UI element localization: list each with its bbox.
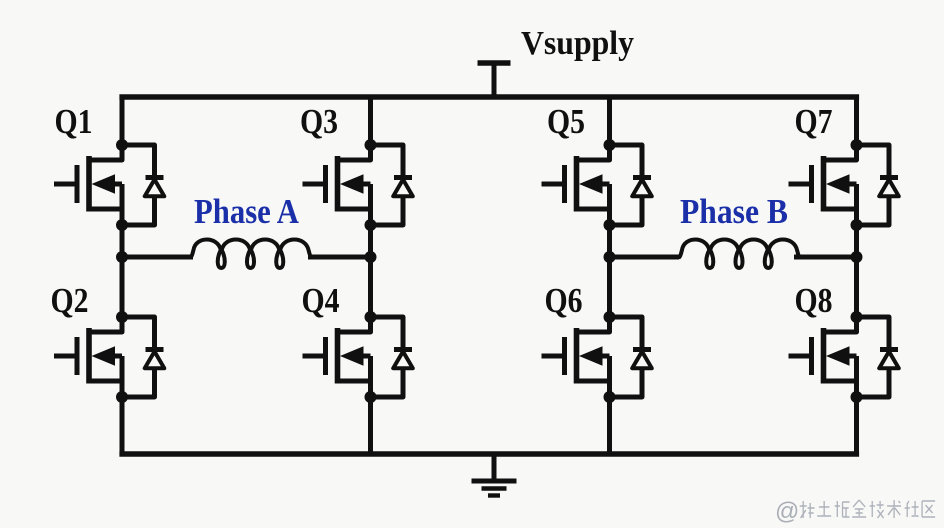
node: source of Q3 bbox=[365, 219, 377, 231]
svg-text:Vsupply: Vsupply bbox=[521, 25, 634, 62]
wire: half-bridge leg 4 bbox=[854, 97, 859, 454]
svg-text:Q8: Q8 bbox=[795, 281, 833, 320]
node: source of Q2 bbox=[116, 391, 128, 403]
wire: top supply rail bbox=[119, 94, 859, 99]
svg-text:Phase B: Phase B bbox=[680, 193, 788, 231]
body diode of Q2 bbox=[122, 317, 164, 397]
node: drain of Q6 bbox=[604, 311, 616, 323]
node: source of Q6 bbox=[604, 391, 616, 403]
wire: half-bridge leg 1 bbox=[120, 97, 125, 454]
node: drain of Q8 bbox=[851, 311, 863, 323]
node: source of Q7 bbox=[851, 219, 863, 231]
power symbol Vsupply bar bbox=[478, 60, 511, 65]
wire: phase B node left bbox=[610, 255, 680, 260]
node: drain of Q7 bbox=[851, 139, 863, 151]
body diode of Q8 bbox=[857, 317, 899, 397]
wire: phase B node right bbox=[794, 255, 857, 260]
transistor Q7 bbox=[789, 145, 857, 225]
body diode of Q3 bbox=[371, 145, 413, 225]
node: phase A left junction bbox=[116, 251, 128, 263]
node: phase B left junction bbox=[604, 251, 616, 263]
transistor Q1 bbox=[54, 145, 122, 225]
wire: phase A node right bbox=[308, 255, 371, 260]
transistor Q5 bbox=[542, 145, 610, 225]
svg-text:@: @ bbox=[775, 498, 799, 525]
node: drain of Q1 bbox=[116, 139, 128, 151]
node: drain of Q5 bbox=[604, 139, 616, 151]
body diode of Q5 bbox=[610, 145, 652, 225]
wire: phase A node left bbox=[122, 255, 193, 260]
body diode of Q6 bbox=[610, 317, 652, 397]
node: phase A right junction bbox=[365, 251, 377, 263]
ground bbox=[472, 454, 517, 496]
wire: bottom ground rail bbox=[119, 451, 859, 456]
svg-text:Q4: Q4 bbox=[302, 281, 340, 320]
node: source of Q4 bbox=[365, 391, 377, 403]
node: drain of Q3 bbox=[365, 139, 377, 151]
wire: half-bridge leg 2 bbox=[368, 97, 373, 454]
svg-text:Q6: Q6 bbox=[545, 281, 583, 320]
svg-text:Q7: Q7 bbox=[795, 102, 833, 141]
node: drain of Q2 bbox=[116, 311, 128, 323]
transistor Q3 bbox=[303, 145, 371, 225]
inductor L_A (Phase A) bbox=[191, 240, 311, 269]
watermark @稀土掘金技术社区 bbox=[775, 498, 935, 525]
body diode of Q1 bbox=[122, 145, 164, 225]
inductor L_B (Phase B) bbox=[680, 240, 800, 269]
body diode of Q4 bbox=[371, 317, 413, 397]
svg-text:Phase A: Phase A bbox=[194, 193, 299, 231]
node: phase B right junction bbox=[851, 251, 863, 263]
node: source of Q1 bbox=[116, 219, 128, 231]
wire: Vsupply stub bbox=[492, 63, 497, 97]
svg-text:Q5: Q5 bbox=[547, 102, 585, 141]
node: drain of Q4 bbox=[365, 311, 377, 323]
node: source of Q5 bbox=[604, 219, 616, 231]
wire: half-bridge leg 3 bbox=[607, 97, 612, 454]
transistor Q4 bbox=[303, 317, 371, 397]
svg-text:Q1: Q1 bbox=[55, 102, 93, 141]
svg-text:Q2: Q2 bbox=[51, 281, 89, 320]
transistor Q6 bbox=[542, 317, 610, 397]
transistor Q2 bbox=[54, 317, 122, 397]
node: source of Q8 bbox=[851, 391, 863, 403]
svg-text:Q3: Q3 bbox=[300, 102, 338, 141]
transistor Q8 bbox=[789, 317, 857, 397]
body diode of Q7 bbox=[857, 145, 899, 225]
